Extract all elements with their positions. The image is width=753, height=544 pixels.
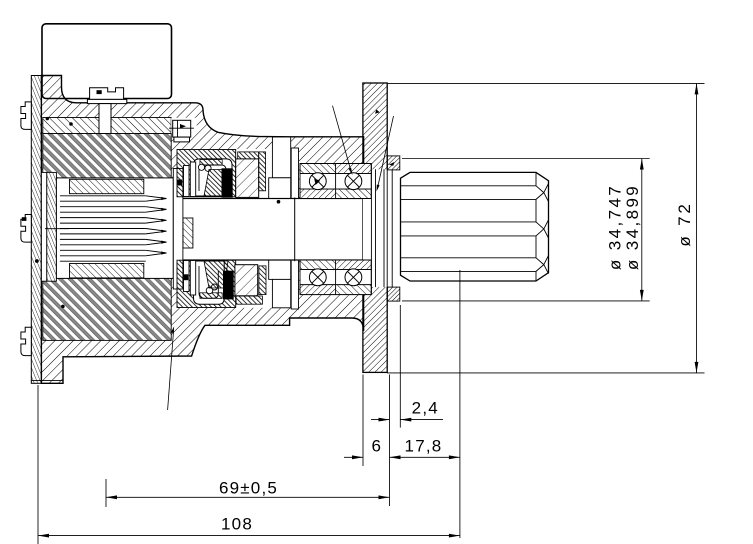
- ext lines dia 34: [402, 158, 650, 160]
- white notch right of cover band: [171, 118, 197, 134]
- top bearing divider: [335, 164, 337, 199]
- ext line spline start: [399, 305, 401, 428]
- top seal: black ring: [222, 168, 233, 197]
- top seal: seat block: [177, 150, 236, 197]
- slot top: [272, 137, 290, 178]
- plate bottom cap line: [31, 380, 63, 382]
- clip foot: [174, 137, 190, 142]
- slot bottom: [272, 279, 290, 307]
- housing main body: [21, 76, 371, 384]
- slot top lower step: [269, 178, 291, 199]
- left tab middle: [21, 215, 31, 243]
- input bore strip: [41, 172, 46, 281]
- shaft: [173, 199, 371, 261]
- top ball gap: [300, 174, 371, 190]
- svg-text:ø 34,747: ø 34,747: [606, 184, 625, 270]
- svg-text:17,8: 17,8: [405, 437, 443, 456]
- hub collar bottom: [387, 287, 400, 301]
- dot marks: [69, 122, 73, 126]
- svg-text:ø 34,899: ø 34,899: [623, 184, 642, 270]
- ball 1: [309, 173, 326, 190]
- input hub wall (steep hatch): [47, 172, 57, 281]
- top seal: bellows: [204, 170, 228, 197]
- svg-text:2,4: 2,4: [412, 399, 439, 418]
- ext lines dia 72: [387, 82, 704, 84]
- dim dia72 line: [696, 83, 698, 373]
- input spline coupling: [45, 169, 183, 290]
- bottom seal: seat block: [177, 260, 236, 307]
- seal assemblies: [177, 150, 266, 308]
- bottom seal: lower band: [236, 296, 262, 304]
- hub verticals: [370, 164, 372, 295]
- casting silhouette: [41, 76, 363, 384]
- leader to bearing: [333, 106, 352, 171]
- ball 3: [309, 269, 326, 286]
- top outer race: [300, 164, 371, 174]
- svg-text:ø 72: ø 72: [675, 201, 694, 246]
- screw mark: [97, 90, 102, 94]
- dim dia34 line: [641, 159, 643, 301]
- seal cavity top: [177, 149, 273, 199]
- left tab bottom: [21, 327, 31, 355]
- spline leader dots: [407, 191, 411, 195]
- left tab top: [21, 102, 31, 129]
- bottom seal: right dark ring: [259, 266, 266, 295]
- svg-text:108: 108: [221, 515, 253, 534]
- spacer white bottom: [291, 259, 298, 310]
- bottom seal: black ring: [223, 271, 234, 300]
- bottom ball gap: [300, 270, 371, 285]
- bottom outer race: [300, 285, 371, 295]
- arrow mark in flange: [375, 109, 380, 113]
- clamp screw head: [90, 88, 124, 100]
- slot bottom upper step: [269, 259, 291, 280]
- shaft sleeve section: [183, 218, 193, 248]
- centerline dash: [45, 228, 69, 230]
- hub window: [363, 169, 401, 287]
- spline lines: [401, 172, 549, 281]
- bearings: [300, 164, 371, 295]
- top seal: left dark block: [178, 180, 183, 186]
- dimensions: [38, 83, 705, 544]
- screw shank: [99, 104, 111, 134]
- top seal: right dark ring: [259, 152, 266, 191]
- output spline shaft: [35, 83, 705, 544]
- top seal: washer posts: [184, 166, 190, 197]
- bottom seal: spring coils: [206, 287, 213, 294]
- dim 2,4: [371, 419, 390, 421]
- dim 6 / 17,8: [344, 456, 363, 458]
- svg-text:6: 6: [371, 437, 382, 456]
- output flange column: [363, 83, 401, 372]
- top seal: carbon ring: [236, 159, 259, 198]
- top seal: cup top band: [200, 160, 222, 166]
- shaft shoulder: [294, 198, 296, 262]
- bottom seal: retainer cup: [194, 261, 225, 304]
- screw washer: [87, 99, 126, 103]
- spacer white top: [291, 148, 298, 199]
- hub collar top: [387, 156, 400, 170]
- ball 2: [345, 173, 362, 190]
- top seal: retainer cup: [194, 159, 233, 196]
- collar arrow mark: [389, 162, 395, 166]
- bottom bearing divider: [335, 260, 337, 295]
- gear block (dense cross hatch): [43, 134, 171, 341]
- seal cavity bottom: [177, 259, 273, 308]
- top seal: spring coils: [198, 164, 204, 170]
- sleeve: [173, 169, 183, 290]
- top seal: upper band: [238, 152, 259, 159]
- bottom seal: cup bottom band: [200, 293, 222, 299]
- coupling body: [56, 178, 173, 279]
- ball1 arrow mark: [314, 179, 320, 185]
- coupling collar bottom: [70, 264, 144, 278]
- mounting pad (rounded rectangle): [42, 24, 172, 99]
- dim 108: [38, 535, 460, 537]
- leader to hub: [378, 116, 394, 188]
- bottom seal: left dark block: [184, 274, 189, 280]
- top inner race: [300, 189, 371, 199]
- svg-text:69±0,5: 69±0,5: [219, 479, 278, 498]
- ext line 69 left: [105, 479, 107, 507]
- cover band (opposite hatch): [43, 118, 171, 134]
- dim 69: [106, 496, 390, 498]
- bottom leader: [168, 330, 174, 410]
- ext line flange left face: [362, 375, 364, 467]
- ext line flange right face: [389, 375, 391, 507]
- spline partial lines: [405, 182, 456, 184]
- coupling collar top: [70, 179, 144, 193]
- bottom seal: washer posts: [184, 261, 190, 292]
- flange column: [363, 83, 387, 372]
- clip mark: [180, 124, 186, 129]
- spline teeth lines: [60, 196, 167, 261]
- spline shaft body: [401, 172, 549, 281]
- bottom inner race: [300, 260, 371, 270]
- screw and clip: [35, 88, 394, 410]
- shaft dot: [277, 200, 281, 204]
- ext line x=460: [459, 270, 461, 538]
- tab screw mark: [22, 217, 27, 221]
- bottom seal: bellows: [204, 261, 228, 288]
- ball 4: [345, 269, 362, 286]
- clip leader line: [169, 127, 194, 129]
- ext line left face: [37, 385, 39, 544]
- rear flange plate: [31, 76, 41, 384]
- clip block: [173, 120, 191, 137]
- bottom seal: carbon ring: [235, 265, 258, 296]
- dimension texts: [219, 184, 694, 534]
